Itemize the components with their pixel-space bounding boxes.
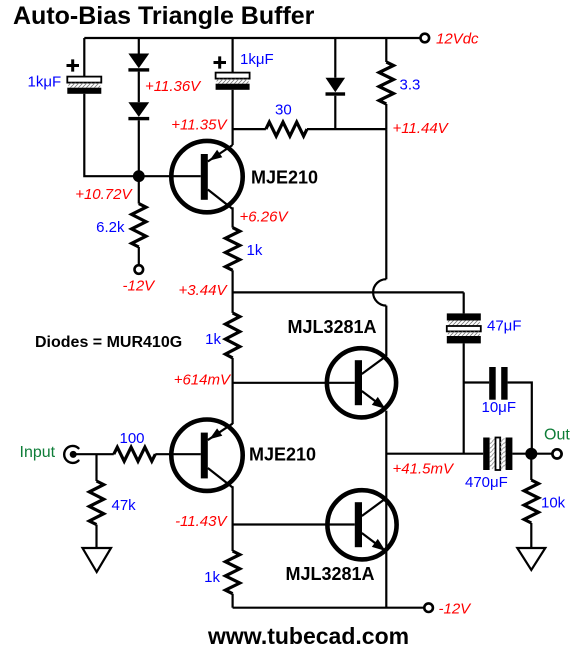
svg-text:10k: 10k: [541, 495, 566, 512]
svg-text:Out: Out: [544, 426, 570, 443]
wire stub to 10uF: [464, 381, 490, 383]
wire Q2 collector down to -11.43V node: [232, 486, 234, 551]
node A junction dot: [133, 170, 145, 182]
svg-text:-11.43V: -11.43V: [175, 513, 228, 530]
terminal -12V left: [135, 265, 144, 274]
svg-text:3.3: 3.3: [400, 77, 421, 94]
resistor 1k (middle): [225, 313, 239, 358]
wire D1 to D2: [138, 72, 140, 103]
out junction dot: [525, 448, 537, 460]
wire C1 bottom to node A: [84, 94, 139, 176]
wire +3.44V rail corner down to 47uF: [463, 292, 465, 313]
wire out node horizontal: [386, 453, 483, 455]
svg-text:MJL3281A: MJL3281A: [286, 564, 375, 584]
svg-text:1k: 1k: [247, 242, 263, 259]
svg-text:+10.72V: +10.72V: [75, 186, 133, 203]
svg-text:1kμF: 1kμF: [28, 74, 62, 91]
svg-text:Input: Input: [20, 444, 56, 461]
wire 1k to +3.44V node: [232, 270, 234, 313]
capacitor C2 1kuF (electrolytic): [214, 38, 250, 90]
svg-text:+11.35V: +11.35V: [171, 117, 228, 134]
terminal -12V bottom: [424, 603, 433, 612]
svg-text:+11.36V: +11.36V: [145, 78, 202, 95]
wire 470uF to out junction: [512, 453, 552, 455]
wire node B horizontal (to 30 resistor): [233, 128, 266, 130]
svg-text:MJE210: MJE210: [249, 445, 316, 465]
svg-text:+41.5mV: +41.5mV: [393, 461, 455, 478]
terminal 12Vdc: [421, 34, 430, 43]
transistor Q3 MJL3281A (NPN): [327, 348, 396, 417]
svg-text:10μF: 10μF: [482, 399, 517, 416]
wire bottom -12V rail: [233, 607, 425, 609]
wire 1k bottom to bottom rail: [232, 594, 234, 608]
diode D3 MUR410G: [326, 38, 346, 129]
wire C2 bottom down to Q1 emitter: [232, 90, 234, 145]
wire input node to 47k: [95, 454, 97, 481]
wire +614mV node to Q3 base: [233, 382, 355, 384]
svg-text:Diodes = MUR410G: Diodes = MUR410G: [35, 334, 182, 351]
wire 1k middle to +614mV node and Q2 emitter: [232, 358, 234, 424]
capacitor 10uF: [489, 367, 507, 400]
wire input to 100 resistor: [76, 453, 114, 455]
transistor Q4 MJL3281A (NPN): [327, 490, 396, 559]
ground symbol (input): [83, 548, 112, 572]
svg-text:+3.44V: +3.44V: [179, 282, 229, 299]
svg-text:1k: 1k: [204, 569, 220, 586]
resistor 47k: [89, 481, 103, 525]
resistor 30: [266, 122, 307, 136]
resistor 1k (Q1 collector): [225, 228, 239, 271]
wire 10k to ground: [530, 523, 532, 548]
svg-text:+614mV: +614mV: [174, 372, 232, 389]
svg-text:100: 100: [120, 430, 145, 447]
wire 3.3 to +11.44V node: [385, 104, 387, 129]
svg-text:-12V: -12V: [123, 278, 157, 295]
svg-text:470μF: 470μF: [465, 474, 508, 491]
terminal Out: [552, 449, 561, 458]
wire 100 to Q2 base: [155, 453, 201, 455]
diode D2 MUR410G: [128, 102, 149, 120]
wire Q3 emitter rail down through out node to bottom rail: [385, 411, 387, 608]
svg-text:Auto-Bias Triangle Buffer: Auto-Bias Triangle Buffer: [13, 2, 315, 30]
capacitor 47uF (non-polar electrolytic): [447, 313, 481, 343]
transistor Q2 MJE210 (PNP): [171, 420, 242, 491]
wire 47uF bottom down to out wire: [463, 343, 465, 453]
svg-text:12Vdc: 12Vdc: [436, 31, 479, 48]
ground symbol (output): [517, 548, 545, 570]
capacitor C1 1kuF (electrolytic): [67, 38, 102, 94]
wire out junction down to 10k: [530, 454, 532, 480]
transistor Q1 MJE210 (PNP): [171, 141, 242, 212]
svg-text:1k: 1k: [205, 331, 221, 348]
wire 30 to +11.44V node: [307, 128, 386, 130]
svg-text:+6.26V: +6.26V: [240, 209, 290, 226]
resistor 3.3: [379, 38, 393, 104]
wire 6.2k to -12V terminal: [138, 247, 140, 265]
svg-text:MJL3281A: MJL3281A: [288, 317, 377, 337]
wire top +12V rail: [84, 37, 424, 39]
svg-text:6.2k: 6.2k: [96, 219, 125, 236]
wire 10uF right side down to out node: [508, 383, 532, 454]
svg-text:www.tubecad.com: www.tubecad.com: [207, 623, 409, 649]
svg-text:1kμF: 1kμF: [240, 51, 274, 68]
resistor 1k (Q2 collector load): [225, 551, 239, 594]
wire Q1 base from node A: [139, 175, 201, 177]
svg-text:MJE210: MJE210: [251, 168, 318, 188]
wire -11.43V node to Q4 base: [233, 523, 355, 525]
wire +3.44V node to 47uF (horizontal): [233, 291, 464, 293]
wire D2 to node A: [138, 120, 140, 176]
svg-text:30: 30: [275, 102, 292, 119]
wire rail from +11.44V node down to hop: [385, 129, 387, 279]
capacitor 470uF (non-polar electrolytic): [483, 438, 512, 471]
wire 47k to ground: [95, 525, 97, 548]
svg-text:47k: 47k: [112, 497, 137, 514]
wire Q1 collector down: [232, 207, 234, 227]
wire hop over +3.44V wire: [373, 279, 386, 305]
svg-text:-12V: -12V: [439, 601, 473, 618]
wire hop to Q3 collector: [385, 306, 387, 356]
svg-text:47μF: 47μF: [487, 318, 522, 335]
wire node A to 6.2k: [138, 176, 140, 203]
resistor 6.2k: [132, 204, 146, 247]
diode D1 MUR410G: [128, 38, 149, 72]
svg-text:+11.44V: +11.44V: [393, 120, 450, 137]
resistor 10k: [524, 480, 538, 523]
input jack connector: [64, 446, 78, 463]
resistor 100: [114, 447, 156, 461]
